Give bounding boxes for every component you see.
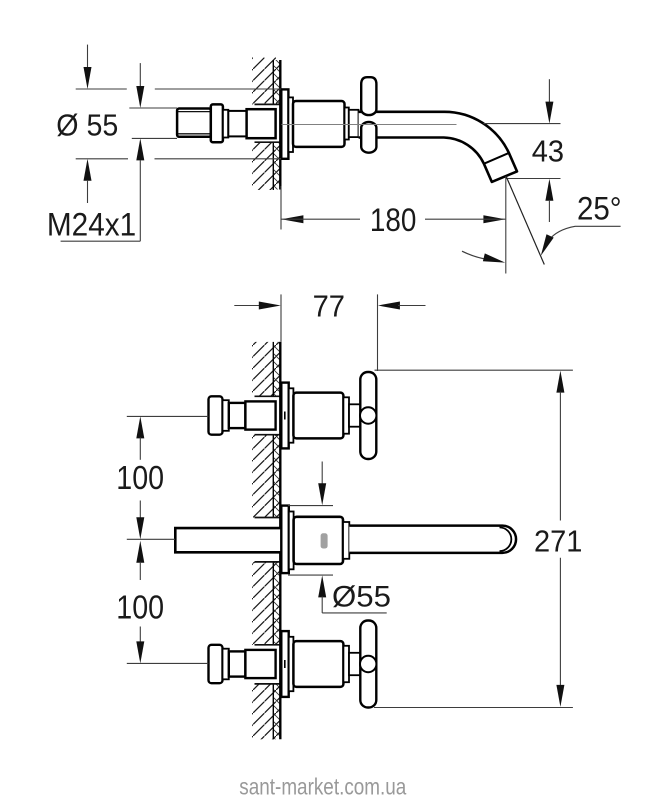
bottom handle escutcheon slot [284,660,286,668]
inlet step [223,110,228,138]
top handle escutcheon slot [284,412,286,420]
svg-text:25°: 25° [577,191,622,227]
svg-text:100: 100 [116,459,164,496]
threaded inlet nipple M24x1 [177,109,211,137]
svg-text:43: 43 [532,134,564,169]
dimension 43 (outlet drop) [483,79,560,222]
spout escutcheon plate [281,506,289,573]
bottom handle hub circle [360,656,376,672]
bottom handle neck [229,651,246,676]
svg-text:sant-market.com.ua: sant-market.com.ua [239,773,407,799]
escutcheon ring [288,97,293,152]
top handle stem arm [349,404,360,426]
top handle neck [229,403,246,428]
spout body housing [293,101,345,147]
bottom handle escutcheon ring [289,637,294,691]
dimension 180 (wall to outlet) [281,176,506,273]
svg-text:Ø55: Ø55 [332,580,391,613]
bottom handle stem arm [349,653,360,675]
svg-text:77: 77 [313,288,345,323]
bottom handle flange ring [223,649,229,680]
spout body step [343,522,349,559]
centerline [282,124,457,126]
svg-text:M24x1: M24x1 [47,207,136,243]
union nut at wall [247,109,276,138]
dimension 100 lower [127,541,209,664]
wall holes for handle and spout pipes [255,396,281,684]
top handle escutcheon plate [281,383,288,449]
dimension 77 (projection from wall) [234,294,425,371]
escutcheon plate (side view) [281,89,288,158]
top handle escutcheon ring [289,388,294,442]
bottom handle cross bar [360,621,376,708]
spout supply tube behind wall [175,528,281,552]
cross handle upper arm (side view) [361,77,376,115]
dimension D55 escutcheon (front view) [288,462,387,613]
bottom handle escutcheon plate [281,631,288,697]
spout tube (front view) with round end [349,526,516,553]
hole in wall for supply pipe [255,104,281,142]
bottom handle cartridge body [293,641,343,687]
spout tube end inner arc [500,527,512,551]
spout escutcheon ring [289,512,294,570]
body step [345,108,349,140]
dimension 100 upper [127,416,209,539]
inlet flange ring [211,104,223,142]
svg-text:Ø 55: Ø 55 [56,108,118,143]
wall section (side view) with hatching [252,58,280,191]
25 degree outlet angle annotation [462,177,621,265]
valve stem section [349,110,359,137]
top handle cross bar [360,372,376,459]
top handle flange ring [223,400,229,431]
dimension M24x1 (thread) [61,63,177,241]
grohe logo mark [321,533,328,548]
bottom handle body step [343,646,349,682]
dimension 271 (overall height) [374,370,573,707]
top handle body step [343,397,349,433]
inlet cylinder [228,111,246,136]
top handle union nut [245,401,275,429]
svg-text:180: 180 [370,202,417,238]
wall face line (continuous, front view) [279,342,281,739]
wall face line (continuous) [279,60,281,190]
dimension D55 (escutcheon diameter, side view) [76,45,281,203]
cross handle front arm (foreshortened) [361,122,376,153]
bottom handle supply cap disk [209,645,223,683]
spout tube with curved outlet [359,112,517,182]
svg-text:271: 271 [534,524,582,559]
svg-text:100: 100 [116,589,164,626]
aerator joint line [484,153,509,164]
bottom handle union nut [245,650,275,678]
top handle cartridge body [293,393,343,439]
top handle supply cap disk [209,396,223,434]
spout body housing (front) [294,517,343,564]
wall section (front/plan view) with hatching [252,342,280,739]
top handle hub circle [360,407,376,423]
